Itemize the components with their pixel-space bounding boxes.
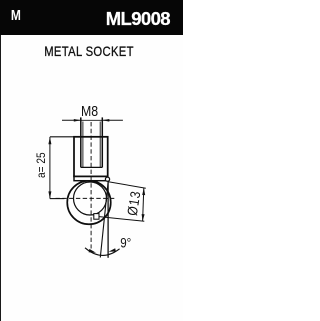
flange cap (74, 176, 108, 181)
svg-text:ML9008: ML9008 (106, 8, 171, 29)
retaining square detail (94, 214, 99, 220)
a=25 top extension line (50, 136, 75, 138)
svg-text:M8: M8 (81, 103, 98, 119)
vertical centerline (90, 122, 92, 249)
M8 dimension left arrow (62, 119, 80, 121)
thread core lines (82, 122, 84, 168)
ball inner circle (74, 182, 107, 215)
M8 dimension line (81, 119, 103, 121)
M8 dimension right arrow (103, 119, 123, 121)
svg-text:9°: 9° (120, 234, 131, 250)
thread pocket bottom (81, 166, 103, 168)
dia13 upper extension line (108, 182, 145, 188)
dia13 lower extension line (99, 217, 144, 222)
arc left arrowhead (89, 249, 96, 253)
dia13 dimension line (143, 188, 144, 222)
tilted axis line 9deg (100, 183, 108, 258)
svg-text:a= 25: a= 25 (35, 152, 48, 177)
svg-text:Ø13: Ø13 (124, 189, 144, 217)
9deg angle arc (85, 248, 120, 256)
a=25 dimension line (49, 137, 51, 199)
9deg label (120, 234, 131, 250)
left scan edge line (0, 0, 2, 321)
arc right arrowhead (109, 248, 116, 252)
ball housing outer circle (67, 181, 111, 225)
header black bar (0, 0, 183, 35)
svg-text:METAL SOCKET: METAL SOCKET (44, 44, 134, 59)
socket body (74, 137, 108, 177)
title METAL SOCKET (44, 44, 134, 59)
threaded stud outer lines (80, 117, 82, 167)
a=25 label (35, 152, 48, 177)
vertical reference line (107, 181, 109, 257)
header letter M (11, 7, 21, 24)
a=25 bottom extension line (50, 198, 65, 200)
svg-text:M: M (11, 7, 21, 24)
dia13 label (124, 189, 144, 217)
horizontal centerline (56, 197, 115, 199)
M8 label (81, 103, 98, 119)
pivot small circle (105, 177, 109, 181)
